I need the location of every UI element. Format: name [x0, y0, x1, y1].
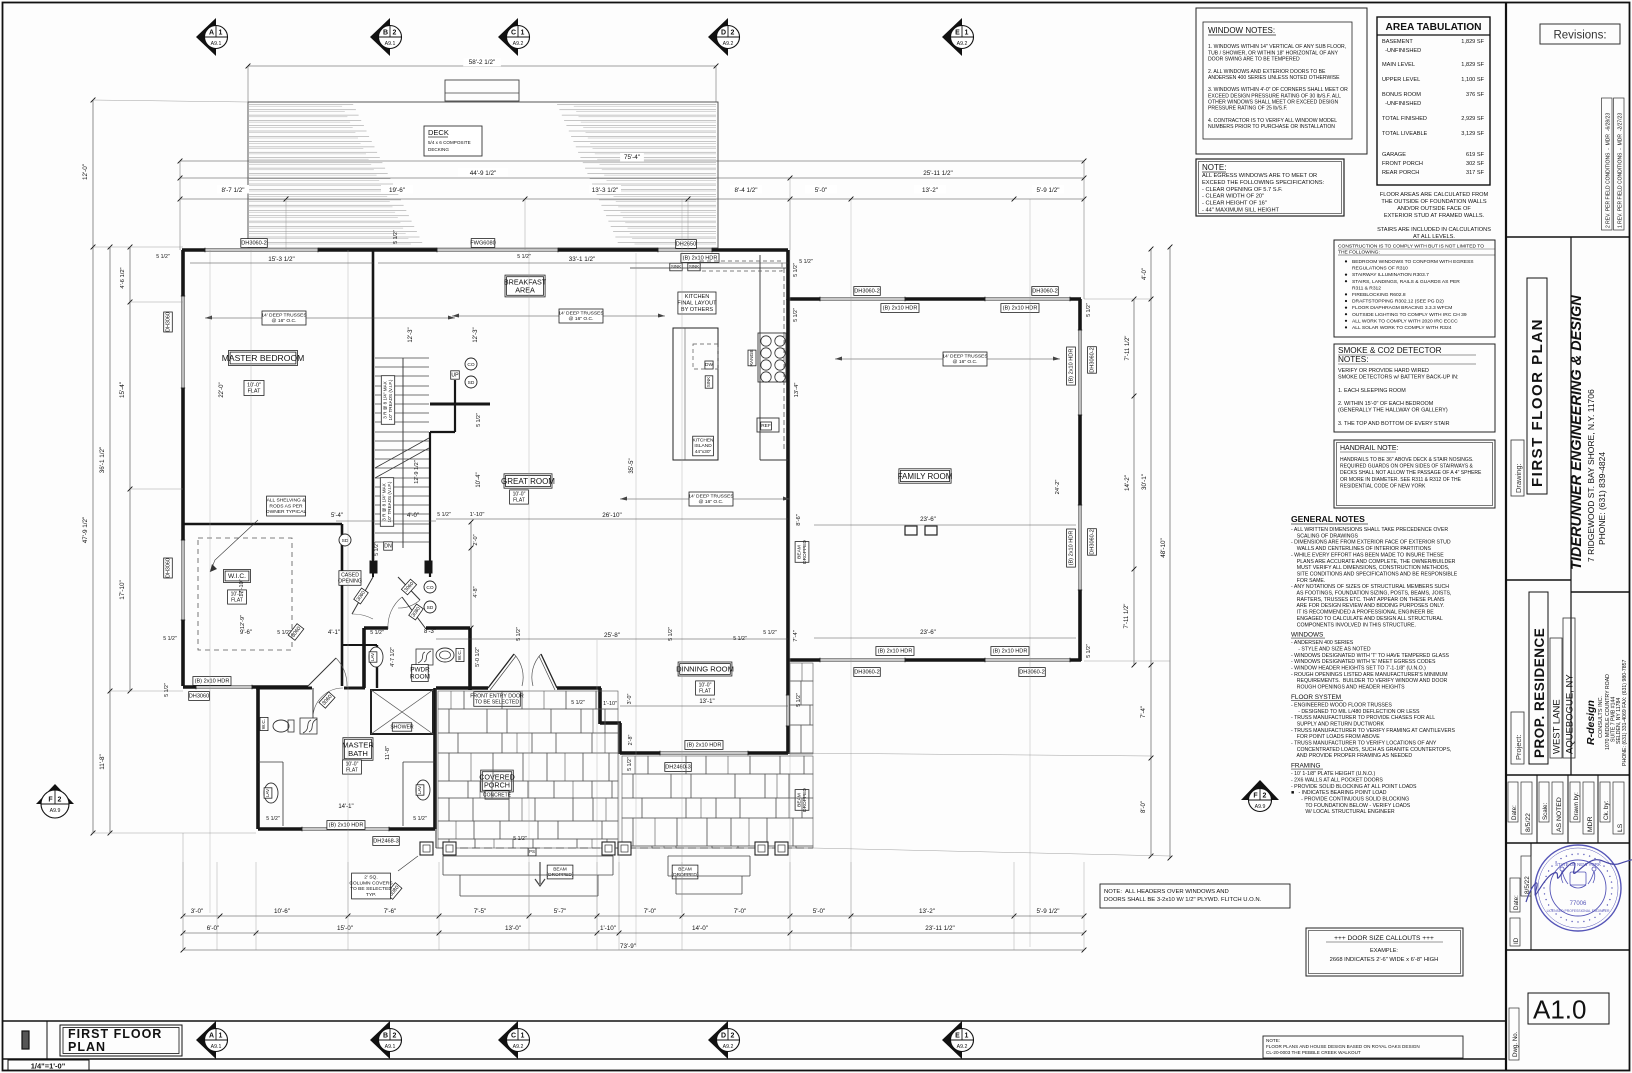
svg-text:1: 1 [521, 1033, 525, 1040]
svg-text:STAIRS ARE INCLUDED IN CALCULA: STAIRS ARE INCLUDED IN CALCULATIONS [1377, 227, 1491, 233]
svg-text:DH3060: DH3060 [189, 694, 210, 700]
svg-text:- ANDERSEN 400 SERIES: - ANDERSEN 400 SERIES [1291, 640, 1354, 646]
svg-text:5 1/2": 5 1/2" [733, 636, 747, 642]
svg-text:GREAT ROOM: GREAT ROOM [501, 477, 555, 486]
label GREAT ROOM [501, 474, 555, 488]
svg-text:D: D [721, 1033, 726, 1040]
svg-text:FOR POINT LOADS FROM ABOVE: FOR POINT LOADS FROM ABOVE [1291, 734, 1380, 740]
svg-text:STAIRWAY ILLUMINATION R303.7: STAIRWAY ILLUMINATION R303.7 [1352, 272, 1429, 278]
svg-text:DN: DN [384, 543, 392, 549]
svg-text:DH2468-3: DH2468-3 [373, 839, 399, 845]
svg-text:NOTE:: NOTE: [1266, 1038, 1280, 1043]
svg-text:FLOOR AREAS ARE CALCULATED FRO: FLOOR AREAS ARE CALCULATED FROM [1380, 192, 1489, 198]
svg-text:2'-0": 2'-0" [473, 534, 479, 545]
stairs [375, 358, 429, 548]
svg-text:STAIRS, LANDINGS, RAILS & GUAR: STAIRS, LANDINGS, RAILS & GUARDS AS PER [1352, 279, 1460, 285]
svg-text:OUTSIDE LIGHTING TO COMPLY WIT: OUTSIDE LIGHTING TO COMPLY WITH IRC CH 3… [1352, 312, 1467, 318]
divider [1506, 236, 1629, 238]
svg-text:UP: UP [451, 372, 459, 378]
deck hatch [249, 105, 716, 243]
family room north wall [789, 297, 1081, 301]
svg-text:8'-6": 8'-6" [796, 514, 802, 526]
svg-text:48'-10": 48'-10" [1160, 538, 1167, 558]
smoke detectors [465, 358, 477, 370]
window DH2460-3 dining [660, 751, 748, 755]
svg-text:1/4"=1'-0": 1/4"=1'-0" [31, 1062, 66, 1071]
svg-text:17'-10": 17'-10" [239, 579, 245, 596]
svg-text:(B) 2x10 HDR: (B) 2x10 HDR [195, 679, 230, 685]
hall wall [342, 644, 377, 646]
svg-text:BEAM: BEAM [796, 793, 802, 807]
entry wall left [436, 686, 488, 690]
svg-text:7'-4": 7'-4" [793, 630, 799, 642]
label hdr dining [685, 741, 723, 750]
stair note lower [380, 478, 393, 527]
half wall landing [430, 403, 490, 406]
svg-text:SD: SD [427, 605, 434, 611]
svg-text:8'-7 1/2": 8'-7 1/2" [221, 187, 244, 194]
construction compliance box [1334, 240, 1495, 337]
svg-text:HANDRAIL NOTE:: HANDRAIL NOTE: [1340, 445, 1399, 452]
label MASTER BATH [342, 738, 374, 761]
svg-text:ARE FOR DESIGN REVIEW AND BIDD: ARE FOR DESIGN REVIEW AND BIDDING PURPOS… [1291, 603, 1444, 609]
svg-text:11'-8": 11'-8" [385, 746, 391, 760]
pwdr door arc top wall [402, 597, 426, 629]
svg-text:SD: SD [468, 380, 475, 386]
svg-text:58'-2 1/2": 58'-2 1/2" [469, 59, 496, 66]
svg-text:25'-11 1/2": 25'-11 1/2" [923, 170, 953, 177]
label KITCHEN [677, 292, 717, 314]
svg-text:BONUS ROOM: BONUS ROOM [1382, 92, 1421, 98]
svg-text:FLOOR PLANS AND HOUSE DESIGN B: FLOOR PLANS AND HOUSE DESIGN BASED ON RO… [1266, 1044, 1420, 1049]
svg-text:5 1/2": 5 1/2" [156, 254, 170, 260]
svg-text:10" TREADS (V.I.F.): 10" TREADS (V.I.F.) [388, 379, 393, 420]
svg-text:5 1/2": 5 1/2" [796, 693, 802, 707]
svg-text:WALLS AND CENTERLINES OF INTER: WALLS AND CENTERLINES OF INTERIOR PARTIT… [1291, 546, 1432, 552]
svg-text:Date:: Date: [1511, 805, 1518, 820]
svg-text:1. EACH SLEEPING ROOM: 1. EACH SLEEPING ROOM [1338, 388, 1406, 394]
svg-text:- WHILE EVERY EFFORT HAS BEEN: - WHILE EVERY EFFORT HAS BEEN MADE TO IN… [1291, 552, 1444, 558]
window DH3060-2 fam n2 [985, 297, 1070, 301]
label beam dropped 2 [672, 865, 699, 879]
svg-text:2: 2 [58, 797, 62, 804]
svg-text:AS NOTED: AS NOTED [1556, 797, 1563, 832]
svg-text:2: 2 [393, 30, 397, 37]
svg-text:- STYLE AND SIZE AS NOTED: - STYLE AND SIZE AS NOTED [1291, 646, 1371, 652]
title block separator [1505, 3, 1507, 1071]
NOTE egress box [1196, 159, 1344, 216]
svg-text:Scale:: Scale: [1542, 803, 1549, 820]
svg-text:NOTE: ALL HEADERS OVER WINDOW: NOTE: ALL HEADERS OVER WINDOWS AND [1104, 889, 1229, 895]
svg-text:24'-2": 24'-2" [1055, 480, 1061, 495]
svg-text:REGULATIONS OF R310: REGULATIONS OF R310 [1352, 266, 1408, 272]
svg-text:ALL SHELVING &: ALL SHELVING & [267, 497, 307, 503]
svg-text:- ANY NOTATIONS OF SIZES OF ST: - ANY NOTATIONS OF SIZES OF STRUCTURAL M… [1291, 584, 1449, 590]
hall doors below stairs [352, 577, 373, 614]
label bath flat [343, 760, 362, 774]
svg-text:KITCHEN: KITCHEN [685, 294, 710, 300]
svg-text:4. CONTRACTOR IS TO VERIFY ALL: 4. CONTRACTOR IS TO VERIFY ALL WINDOW MO… [1208, 118, 1337, 124]
svg-text:1'-10": 1'-10" [600, 925, 616, 932]
label fam e2 [1088, 529, 1097, 556]
svg-text:7'-11 1/2": 7'-11 1/2" [1124, 604, 1130, 629]
section marker D2 top [708, 18, 740, 56]
svg-text:5'-0": 5'-0" [815, 187, 828, 194]
svg-text:CONCRETE: CONCRETE [483, 792, 512, 798]
section marker B2 bottom [370, 1021, 402, 1059]
deck label [424, 126, 482, 156]
section marker E1 bottom [942, 1021, 974, 1059]
svg-text:PROP. RESIDENCE: PROP. RESIDENCE [1532, 628, 1547, 758]
svg-text:1: 1 [521, 30, 525, 37]
svg-text:PHONE: (631) 839-4824: PHONE: (631) 839-4824 [1597, 452, 1607, 545]
svg-text:A1.0: A1.0 [1533, 995, 1587, 1025]
svg-text:@ 16" O.C.: @ 16" O.C. [569, 316, 594, 322]
svg-text:RAFTERS, TRUSSES ETC. THAT APP: RAFTERS, TRUSSES ETC. THAT APPEAR ON THE… [1291, 597, 1445, 603]
svg-text:NOTE:: NOTE: [1202, 163, 1226, 172]
svg-text:SINK: SINK [706, 377, 711, 387]
window DH3060-2 fam e2 [1078, 505, 1082, 590]
svg-text:CO: CO [426, 585, 433, 591]
handrail note box [1334, 440, 1495, 508]
svg-text:A9.2: A9.2 [513, 41, 524, 47]
svg-text:5 1/2": 5 1/2" [668, 627, 674, 641]
label hdr kitchen [681, 254, 719, 263]
section marker B2 top [370, 18, 402, 56]
svg-text:A9.2: A9.2 [957, 41, 968, 47]
section marker A1 top [196, 18, 228, 56]
section marker A1 bottom [196, 1021, 228, 1059]
svg-text:BATH: BATH [348, 749, 368, 758]
window DH3060-2 fam s2 [985, 658, 1070, 662]
svg-text:TYP.: TYP. [366, 892, 376, 898]
svg-text:DH3060-2: DH3060-2 [1019, 670, 1045, 676]
svg-text:5 1/2": 5 1/2" [393, 230, 399, 244]
svg-text:AREA: AREA [515, 286, 535, 295]
svg-text:ROOM: ROOM [410, 674, 430, 681]
svg-text:5'-0": 5'-0" [813, 908, 826, 915]
svg-text:17'-10": 17'-10" [119, 580, 126, 600]
svg-text:23'-6": 23'-6" [920, 629, 936, 636]
label UP [451, 371, 460, 379]
svg-text:AS FOOTINGS, FOUNDATION SIZING: AS FOOTINGS, FOUNDATION SIZING, POSTS, B… [1291, 591, 1451, 597]
svg-text:C: C [511, 30, 516, 37]
window DH3060-2 fam s1 [820, 658, 905, 662]
family room south wall [789, 658, 1081, 662]
svg-text:- TRUSS MANUFACTURER TO VERIFY: - TRUSS MANUFACTURER TO VERIFY LOCATIONS… [1291, 741, 1437, 747]
svg-text:EXCEED THE FOLLOWING SPECIFICA: EXCEED THE FOLLOWING SPECIFICATIONS: [1202, 180, 1325, 186]
svg-text:GARAGE: GARAGE [1382, 152, 1406, 158]
svg-text:1,829 SF: 1,829 SF [1461, 39, 1484, 45]
svg-text:OTHER WINDOWS SHALL MEET OR EX: OTHER WINDOWS SHALL MEET OR EXCEED DESIG… [1208, 100, 1339, 106]
svg-text:DECK: DECK [428, 128, 449, 137]
svg-text:- CLEAR OPENING OF 5.7 S.F.: - CLEAR OPENING OF 5.7 S.F. [1202, 187, 1283, 193]
label sink1 [670, 263, 682, 271]
svg-text:5 1/2": 5 1/2" [763, 630, 777, 636]
entry wall right [557, 686, 601, 690]
svg-text:10'-0": 10'-0" [247, 382, 261, 388]
svg-text:23'-6": 23'-6" [920, 516, 936, 523]
svg-text:DH3060-2: DH3060-2 [1090, 529, 1096, 555]
svg-text:DRAFTSTOPPING R302.12 (SEE PG: DRAFTSTOPPING R302.12 (SEE PG D2) [1352, 299, 1444, 305]
svg-text:14'-1": 14'-1" [338, 804, 353, 810]
pwdr east wall [468, 628, 472, 690]
svg-text:13'-2": 13'-2" [919, 908, 935, 915]
svg-text:12'-9": 12'-9" [240, 615, 246, 629]
master bedroom south wall [183, 523, 342, 526]
divider [1506, 949, 1629, 951]
svg-text:NUMBERS PRIOR TO PURCHASE OR I: NUMBERS PRIOR TO PURCHASE OR INSTALLATIO… [1208, 124, 1335, 130]
svg-text:2668 INDICATES 2'-6" WIDE x 6': 2668 INDICATES 2'-6" WIDE x 6'-8" HIGH [1330, 957, 1439, 963]
svg-text:3'-0": 3'-0" [191, 908, 204, 915]
window DH3060 west upper [181, 296, 185, 388]
svg-text:5 1/2": 5 1/2" [516, 627, 522, 641]
svg-text:- ROUGH OPENINGS LISTED ARE MA: - ROUGH OPENINGS LISTED ARE MANUFACTURER… [1291, 672, 1448, 678]
svg-text:5 1/2": 5 1/2" [627, 757, 633, 771]
svg-text:FRONT PORCH: FRONT PORCH [1382, 161, 1423, 167]
svg-text:5'-7": 5'-7" [554, 908, 567, 915]
bottom title strip [3, 1020, 1507, 1022]
svg-text:DH3060: DH3060 [166, 312, 172, 332]
svg-text:R311 & R312: R311 & R312 [1352, 285, 1381, 291]
svg-text:8'-3": 8'-3" [424, 629, 436, 635]
svg-text:DROPPED: DROPPED [802, 788, 808, 812]
section marker C1 bottom [498, 1021, 530, 1059]
svg-text:Drawn by:: Drawn by: [1573, 792, 1580, 820]
svg-text:Dwg. No.: Dwg. No. [1512, 1031, 1519, 1057]
svg-text:TO BE SELECTED: TO BE SELECTED [475, 700, 520, 706]
svg-text:BEAM: BEAM [796, 545, 802, 559]
wic east wall [341, 524, 344, 686]
window DH3060-2 fam e1 [1078, 330, 1082, 415]
kitchen island [673, 328, 718, 460]
svg-text:25'-8": 25'-8" [604, 632, 620, 639]
svg-text:MDR: MDR [1587, 816, 1594, 832]
svg-text:CASED: CASED [341, 572, 359, 578]
svg-text:1: 1 [219, 1033, 223, 1040]
svg-text:TUB / SHOWER, OR WITHIN 18" HO: TUB / SHOWER, OR WITHIN 18" HORIZONTAL O… [1208, 50, 1339, 56]
label 3060 wic [288, 624, 304, 641]
svg-text:15'-3 1/2": 15'-3 1/2" [268, 256, 295, 263]
svg-text:13'-3 1/2": 13'-3 1/2" [592, 187, 619, 194]
svg-text:(B) 2x10 HDR: (B) 2x10 HDR [1069, 531, 1075, 566]
svg-text:A9.1: A9.1 [385, 1044, 396, 1050]
svg-text:Project:: Project: [1514, 735, 1523, 760]
interior dims [190, 262, 373, 264]
wic south wall [183, 685, 308, 689]
svg-text:14' DEEP TRUSSES: 14' DEEP TRUSSES [688, 493, 734, 499]
svg-text:15'-0": 15'-0" [337, 925, 353, 932]
svg-text:@ 16" O.C.: @ 16" O.C. [272, 318, 297, 324]
svg-text:9'-6": 9'-6" [240, 630, 252, 636]
porch post [420, 842, 433, 855]
label front entry [470, 692, 524, 707]
label 3080 basement [386, 883, 402, 900]
stair west wall low [372, 548, 374, 577]
svg-text:- ALL WRITTEN DIMENSIONS SHALL: - ALL WRITTEN DIMENSIONS SHALL TAKE PREC… [1291, 527, 1448, 533]
svg-text:SITE CONDITIONS AND SPECIFICAT: SITE CONDITIONS AND SPECIFICATIONS AND B… [1291, 571, 1458, 577]
deck outline [248, 102, 718, 248]
label DH3060 w2 [164, 558, 173, 578]
label DH3060-2 [241, 239, 267, 248]
svg-text:LAV: LAV [370, 652, 375, 661]
svg-text:7'-0": 7'-0" [734, 908, 747, 915]
window dining west [786, 695, 790, 726]
bath lavs [264, 783, 278, 803]
Drawing: FIRST FLOOR PLAN [1511, 440, 1524, 496]
svg-text:376 SF: 376 SF [1466, 92, 1485, 98]
divider [1506, 842, 1629, 844]
svg-text:1'-10": 1'-10" [603, 701, 617, 707]
svg-text:RANGE: RANGE [749, 349, 755, 366]
svg-text:4'-8": 4'-8" [473, 586, 479, 597]
svg-text:DH3060-2: DH3060-2 [241, 241, 267, 247]
svg-text:OPENING: OPENING [338, 579, 362, 585]
svg-text:- PROVIDE CONTINUOUS SOLID BLO: - PROVIDE CONTINUOUS SOLID BLOCKING [1291, 796, 1409, 802]
svg-text:14'-0": 14'-0" [692, 925, 708, 932]
pantry dashed [700, 261, 782, 271]
sheet title: FIRST FLOOR PLAN [60, 1025, 182, 1056]
dining sw jog h [600, 721, 621, 725]
svg-text:2' SQ.: 2' SQ. [364, 874, 377, 880]
svg-text:ROUGH OPENINGS AND HEADER HEIG: ROUGH OPENINGS AND HEADER HEIGHTS [1291, 685, 1405, 691]
label sink island [705, 376, 713, 388]
svg-text:FLAT: FLAT [248, 389, 261, 395]
svg-text:7'-6": 7'-6" [384, 908, 397, 915]
svg-text:E: E [955, 1033, 960, 1040]
royal oaks note box [1263, 1036, 1463, 1058]
svg-text:DH3060-2: DH3060-2 [1032, 289, 1058, 295]
svg-text:Ck. by:: Ck. by: [1603, 800, 1610, 820]
svg-text:A9.1: A9.1 [211, 41, 222, 47]
svg-text:- CLEAR WIDTH OF 20": - CLEAR WIDTH OF 20" [1202, 194, 1264, 200]
svg-text:E: E [955, 30, 960, 37]
WINDOW NOTES box [1196, 8, 1367, 154]
svg-text:-UNFINISHED: -UNFINISHED [1382, 101, 1421, 107]
svg-text:DROPPED: DROPPED [802, 540, 808, 564]
shower [371, 690, 433, 734]
label dr flat [696, 681, 715, 695]
label fam e1 [1088, 347, 1097, 374]
label beam dropped 3 [795, 540, 809, 564]
svg-text:REF: REF [761, 423, 771, 429]
svg-text:- DIMENSIONS ARE FROM EXTERIOR: - DIMENSIONS ARE FROM EXTERIOR FACE OF E… [1291, 540, 1451, 546]
label PWDR ROOM [410, 665, 430, 682]
svg-text:LAV: LAV [417, 785, 422, 794]
svg-text:1: 1 [965, 1033, 969, 1040]
svg-text:THE FOLLOWING:: THE FOLLOWING: [1338, 250, 1380, 256]
svg-text:COMPONENTS INVOLVED IN THIS ST: COMPONENTS INVOLVED IN THIS STRUCTURE. [1291, 622, 1416, 628]
svg-text:CONCENTRATED LOADS, SUCH AS GR: CONCENTRATED LOADS, SUCH AS GRANITE COUN… [1291, 747, 1451, 753]
svg-text:(B) 2x10 HDR: (B) 2x10 HDR [1069, 349, 1075, 384]
svg-text:5 1/2": 5 1/2" [164, 683, 170, 697]
svg-text:TO FOUNDATION BELOW - VERIFY L: TO FOUNDATION BELOW - VERIFY LOADS [1291, 803, 1411, 809]
svg-text:LS: LS [1617, 823, 1624, 832]
svg-text:FIRST FLOOR PLAN: FIRST FLOOR PLAN [1529, 318, 1546, 487]
svg-text:619 SF: 619 SF [1466, 152, 1485, 158]
svg-text:5 1/2": 5 1/2" [437, 512, 451, 518]
label fam s2 [1019, 668, 1046, 677]
svg-text:47'-9 1/2": 47'-9 1/2" [82, 517, 89, 544]
svg-text:FRONT ENTRY DOOR: FRONT ENTRY DOOR [470, 693, 524, 699]
svg-text:W.C.: W.C. [261, 719, 267, 729]
svg-text:FWG6080: FWG6080 [470, 241, 496, 247]
svg-text:AREA TABULATION: AREA TABULATION [1385, 22, 1481, 33]
svg-text:DH2460-3: DH2460-3 [665, 765, 691, 771]
bath west wall [256, 688, 260, 829]
label mb flat [244, 381, 264, 396]
svg-text:7'-5": 7'-5" [474, 908, 487, 915]
svg-text:(B) 2x10 HDR: (B) 2x10 HDR [1003, 306, 1038, 312]
svg-text:1. WINDOWS WITHIN 14" VERTICAL: 1. WINDOWS WITHIN 14" VERTICAL OF ANY SU… [1208, 44, 1346, 50]
svg-text:26'-10": 26'-10" [602, 512, 622, 519]
stair east wall [429, 432, 431, 577]
stair note upper [381, 376, 394, 425]
label DH3060 wic [189, 692, 210, 701]
svg-text:33'-1 1/2": 33'-1 1/2" [569, 256, 596, 263]
label fam n1 [854, 287, 881, 296]
svg-text:FOR SAME.: FOR SAME. [1291, 578, 1325, 584]
svg-text:5'-9 1/2": 5'-9 1/2" [1036, 187, 1059, 194]
svg-text:W.C.: W.C. [457, 650, 463, 660]
svg-text:OWNER TYPICAL: OWNER TYPICAL [266, 509, 307, 515]
family/dining west wall [786, 299, 790, 754]
svg-text:7'-0": 7'-0" [644, 908, 657, 915]
NY PE seal (blue) [1535, 845, 1621, 931]
hall east wall low [376, 645, 378, 688]
faint grid extension lines [209, 250, 211, 913]
svg-text:R-design: R-design [1585, 700, 1597, 745]
svg-text:FLAT: FLAT [513, 497, 525, 503]
svg-text:RODS AS PER: RODS AS PER [269, 503, 303, 509]
svg-text:8'-0": 8'-0" [1141, 801, 1147, 813]
svg-text:DECKING: DECKING [428, 147, 449, 152]
svg-text:KITCHEN: KITCHEN [692, 437, 714, 443]
svg-text:W/ LOCAL STRUCTURAL ENGINEER: W/ LOCAL STRUCTURAL ENGINEER [1291, 809, 1395, 815]
svg-text:FIRST FLOOR: FIRST FLOOR [68, 1027, 162, 1041]
svg-text:8/5/22: 8/5/22 [1525, 813, 1532, 832]
revision entries (rotated) [1602, 98, 1613, 230]
svg-text:FLOOR DIAPHRAGM BRACING 3.3.3: FLOOR DIAPHRAGM BRACING 3.3.3 WFCM [1352, 305, 1452, 311]
window DH3060 west lower [181, 540, 185, 620]
svg-text:COLUMN COVERS: COLUMN COVERS [349, 880, 393, 886]
smoke co2 box [1334, 344, 1495, 432]
label DH2460-3 dining [665, 763, 692, 772]
window DH2468-3 bath [302, 827, 389, 831]
svg-text:FINAL LAYOUT: FINAL LAYOUT [677, 301, 717, 307]
svg-text:302 SF: 302 SF [1466, 161, 1485, 167]
svg-text:AND/OR OUTSIDE FACE OF: AND/OR OUTSIDE FACE OF [1397, 206, 1471, 212]
porch post [618, 842, 631, 855]
svg-text:2,929 SF: 2,929 SF [1461, 116, 1484, 122]
svg-text:CONSTRUCTION IS TO COMPLY WITH: CONSTRUCTION IS TO COMPLY WITH BUT IS NO… [1338, 244, 1484, 250]
svg-text:(B) 2x10 HDR: (B) 2x10 HDR [883, 306, 918, 312]
svg-text:SMOKE & CO2 DETECTOR: SMOKE & CO2 DETECTOR [1338, 346, 1442, 355]
svg-text:2. ALL WINDOWS AND EXTERIOR DO: 2. ALL WINDOWS AND EXTERIOR DOORS TO BE [1208, 69, 1326, 75]
svg-text:77006: 77006 [1570, 901, 1587, 907]
svg-text:7'-4": 7'-4" [1141, 706, 1147, 718]
svg-text:36'-1 1/2": 36'-1 1/2" [99, 447, 106, 474]
range [758, 333, 786, 382]
svg-text:5 1/2": 5 1/2" [266, 816, 280, 822]
divider [1506, 774, 1629, 776]
label fam s1 [854, 668, 881, 677]
svg-text:@ 16" O.C.: @ 16" O.C. [953, 359, 978, 365]
section marker E1 top [942, 18, 974, 56]
label DINNING ROOM [676, 662, 734, 676]
svg-text:DECKS SHALL NOT ALLOW THE PASS: DECKS SHALL NOT ALLOW THE PASSAGE OF A 4… [1340, 470, 1482, 476]
svg-text:11'-8": 11'-8" [99, 754, 106, 770]
